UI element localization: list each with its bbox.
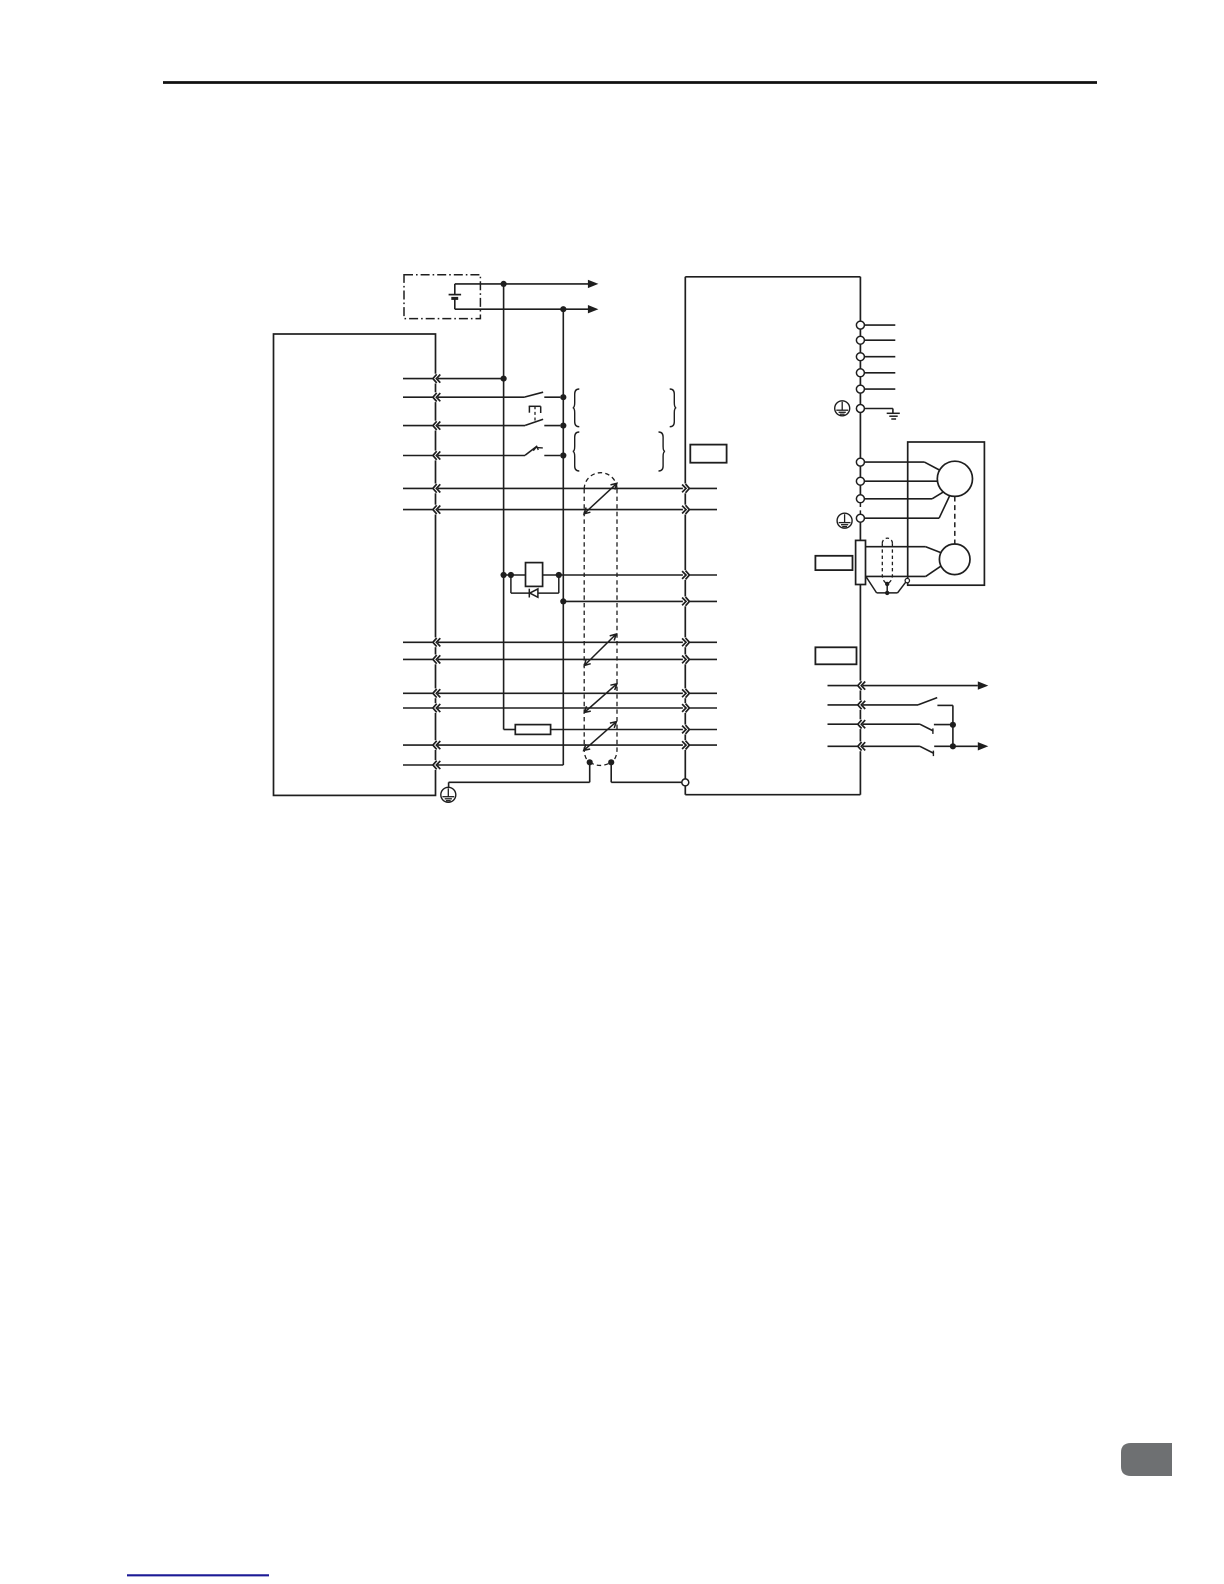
servo output pin stubs [828,686,858,747]
host controller box [274,334,436,795]
wire relay [504,574,686,576]
wire pulse A [436,487,686,489]
label box CN1 [690,445,726,463]
twisted pair mark 2 [584,634,616,665]
junction bus2 tap [560,598,566,604]
servo CN1 connector chevrons [682,484,689,751]
host box pin stubs [403,379,433,765]
junction shield1 drain left [587,759,593,765]
wire sig1 [436,641,686,643]
header rule [163,81,1097,84]
junction output 3 [950,722,956,728]
label box CN2 [815,556,852,570]
wire sig4 [436,707,686,709]
junction battery minus [560,306,566,312]
power terminal circles [856,321,864,393]
wire resistor lead right [551,729,686,731]
arrow battery plus [588,280,599,288]
brace group2 left [573,432,580,471]
E-stop actuator symbol [529,406,541,421]
wire motor V [864,480,937,482]
arrow output 4 [978,742,989,750]
junction S3-bus2 [560,452,566,458]
ground terminal circle [856,405,864,413]
battery BAT [449,295,462,299]
wire shield1 drain left [449,762,590,787]
ground PE host [441,787,456,802]
motor M [937,461,972,496]
wire output 3 [861,723,920,725]
arrow output 1 [978,681,989,689]
wire sig2 [436,658,686,660]
brace group1 left [573,389,580,427]
junction shield1 drain right [608,759,614,765]
power terminal stubs [864,325,895,389]
wire input 4 [436,455,525,457]
wire output 4 [861,745,920,747]
page edge tab [1121,1443,1172,1476]
wire bus2 tap [563,600,686,602]
brace group1 right [670,389,677,427]
wire sig3 [436,692,686,694]
switch K4 contact [920,746,978,756]
wire battery minus [455,298,589,309]
wire bus1 vertical [503,284,505,730]
wire resistor lead left [504,729,516,731]
shield cable 2 (dashed) [882,538,892,584]
diode D1 [529,589,538,598]
wire battery-plus tap [436,378,503,380]
switch S2 (E-stop contact) [525,419,560,425]
wire shield1 drain right [611,762,682,782]
wire shield2 frame bond [866,577,906,593]
wire motor W [864,492,943,499]
wire motor U [864,462,940,470]
wire encoder B [866,566,941,576]
wire battery return [436,764,563,766]
shield terminal node [682,779,689,786]
ground PE motor [837,513,852,528]
label box CN3 [815,647,856,664]
wire pulse B [436,509,686,511]
relay coil K1 [526,563,543,587]
motor box [908,442,985,585]
junction battery plus [501,281,507,287]
footnote rule (blue) [127,1574,269,1576]
switch S3 [525,446,560,455]
wire input 3 [436,425,525,427]
junction diode left [508,572,514,578]
connector CN2 [856,540,866,584]
junction bus1 tap [501,376,507,382]
encoder E [939,544,970,575]
junction shield2 top [885,582,889,586]
servo drive box [685,277,860,795]
encoder link (dashed) [954,497,956,544]
junction shield2 bottom [885,591,889,595]
wire output link [952,705,954,746]
junction output 4 [950,743,956,749]
twisted pair mark 3 [584,684,617,713]
wire battery plus [455,284,589,295]
junction S2-bus2 [560,423,566,429]
ground terminal wire and symbol [864,409,899,420]
switch K3 contact [920,724,953,734]
switch K2 contact [918,698,953,706]
motor frame node [905,578,909,582]
wire input 2 [436,396,524,398]
battery box (dash-dot) [404,275,480,319]
resistor R1 [515,725,550,735]
twisted pair mark 1 [584,483,617,514]
arrow battery minus [588,305,599,313]
junction diode right [556,572,562,578]
ground PE servo [835,401,850,416]
wire sig5 [436,744,686,746]
servo output connector chevrons [858,681,865,752]
wire diode branch [511,575,559,593]
host box connector chevrons [433,374,440,770]
junction relay left [501,572,507,578]
wire output 2 [861,704,918,706]
shield cable 1 (dashed) [584,473,617,766]
servo CN1 pin stubs [689,488,717,745]
wire encoder A [866,547,941,553]
wire output 1 [861,685,977,687]
wire motor PE [864,496,949,518]
wire shield2 drain [886,584,888,593]
wire bus2 vertical [562,309,564,765]
switch S1 [525,392,560,397]
brace group2 right [659,432,666,471]
junction S1-bus2 [560,394,566,400]
twisted pair mark 4 [584,722,617,751]
motor terminal circles [856,458,864,522]
